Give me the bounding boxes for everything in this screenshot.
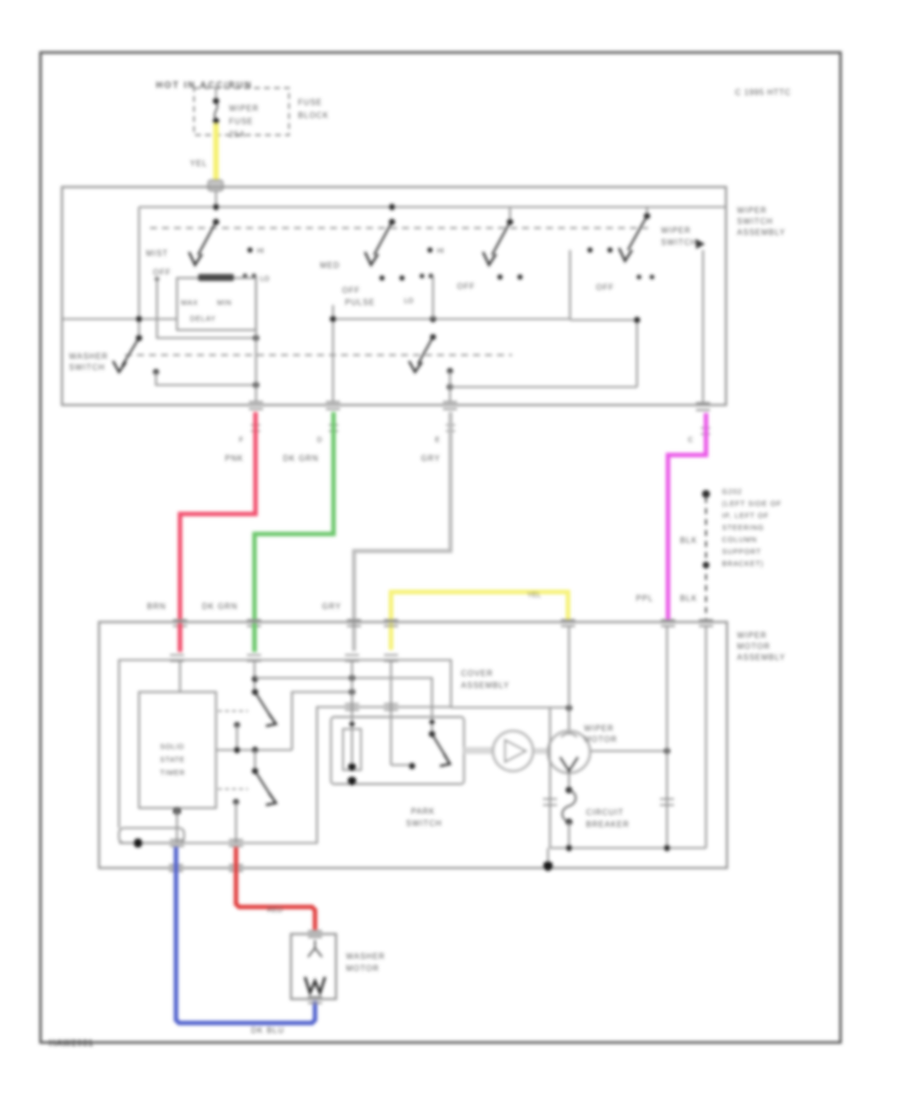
wire yel leg to park contact xyxy=(391,764,412,766)
contact dots sec2 xyxy=(379,275,384,280)
wire off4 rail to gry xyxy=(450,386,637,388)
svg-text:FUSE: FUSE xyxy=(229,117,253,126)
wiper motor assembly box xyxy=(99,622,727,868)
case ground node xyxy=(543,861,553,871)
cover assembly compartment outline xyxy=(119,660,451,843)
svg-text:ASSEMBLY: ASSEMBLY xyxy=(737,653,786,662)
washer switch arm xyxy=(122,338,139,366)
mechanical link bar 2 xyxy=(534,748,549,754)
mechanical link dashed line xyxy=(150,227,648,229)
washer motor box xyxy=(291,934,336,999)
pin yel inner xyxy=(384,655,398,661)
node bus b xyxy=(252,747,258,753)
wire ppl rail down xyxy=(666,626,668,848)
cam pointer xyxy=(505,740,526,762)
wire ppl output rail xyxy=(702,250,704,402)
ground splice node xyxy=(702,490,710,498)
contact dots sec4 xyxy=(587,247,592,252)
node on ground wire xyxy=(703,562,710,569)
svg-text:OFF: OFF xyxy=(153,268,171,277)
node pnk rail mid xyxy=(253,335,259,341)
svg-text:OFF: OFF xyxy=(596,283,614,292)
wire gry output rail xyxy=(449,371,451,402)
wire pnk pin to timer xyxy=(179,661,181,692)
svg-text:SOLID: SOLID xyxy=(160,744,185,751)
wire OFF contact to bottom rail sec1 xyxy=(155,277,159,281)
wire lo contact down sec2 xyxy=(432,276,434,319)
inner box left edge xyxy=(138,207,140,338)
pin brn entry xyxy=(173,620,187,626)
svg-text:GRY: GRY xyxy=(421,454,440,463)
svg-text:MIN: MIN xyxy=(217,300,232,307)
svg-text:RED: RED xyxy=(267,905,283,914)
svg-text:DK BLU: DK BLU xyxy=(251,1026,285,1035)
pin washer motor bottom xyxy=(308,997,322,1003)
svg-text:GRY: GRY xyxy=(322,602,341,611)
switch arm pivot sec1 xyxy=(213,219,219,225)
switch arm pivot sec3 xyxy=(507,219,513,225)
timer control dash 2 xyxy=(218,788,248,790)
wire breaker to bottom xyxy=(568,822,570,848)
node park common xyxy=(348,763,356,771)
wire sec4 bottom rail xyxy=(570,320,637,387)
park contact node xyxy=(409,763,415,769)
cam wheel xyxy=(493,731,533,771)
relay arm rail grn xyxy=(254,661,256,692)
node park lower xyxy=(348,777,357,786)
svg-text:SUPPORT: SUPPORT xyxy=(722,549,761,556)
wiper motor symbol xyxy=(548,731,590,773)
pin red crossing box bottom xyxy=(229,865,243,871)
wire motor to ppl rail xyxy=(590,750,667,752)
timer output node xyxy=(173,807,181,815)
feed stub sec4 xyxy=(646,207,648,217)
svg-text:WASHER: WASHER xyxy=(346,952,385,961)
pin gry entry xyxy=(347,620,361,626)
svg-text:HAW2031: HAW2031 xyxy=(49,1038,94,1048)
wire RED xyxy=(236,847,315,930)
svg-text:E: E xyxy=(435,437,440,444)
pin blue crossing box bottom xyxy=(169,865,183,871)
svg-text:LO: LO xyxy=(404,298,414,305)
switch arm sec4 xyxy=(628,216,647,250)
wire into switch assembly xyxy=(215,191,217,208)
node feed junction sec1 xyxy=(213,204,219,210)
wire relay to park pivot xyxy=(255,678,432,734)
svg-text:YEL: YEL xyxy=(527,590,541,599)
wiper switch connector pointer xyxy=(696,239,705,249)
wire yel pin down to motor xyxy=(568,626,570,732)
pin on ppl rail xyxy=(660,799,674,805)
pin gry inner xyxy=(345,655,359,661)
wire motor down xyxy=(568,773,570,790)
svg-text:DK GRN: DK GRN xyxy=(202,602,238,611)
node feed sec4 xyxy=(644,213,650,219)
pin pnk exit xyxy=(249,402,263,409)
svg-text:BRACKET): BRACKET) xyxy=(722,561,764,568)
svg-text:BREAKER: BREAKER xyxy=(586,820,630,829)
svg-text:DK GRN: DK GRN xyxy=(283,454,319,463)
delay wiper tick marks xyxy=(198,274,234,281)
svg-text:MOTOR: MOTOR xyxy=(584,735,617,744)
node relay feed xyxy=(252,676,258,682)
pin red exit xyxy=(229,840,243,846)
mechanical link bar xyxy=(464,747,493,754)
wire branch riser xyxy=(549,708,551,848)
svg-text:SWITCH: SWITCH xyxy=(406,819,442,828)
pin on branch riser xyxy=(543,799,557,805)
splice S211 at switch box edge xyxy=(208,180,223,191)
wire cover to motor xyxy=(451,707,569,709)
wire DK BLU xyxy=(176,847,315,1023)
pin grn inner xyxy=(247,655,261,661)
svg-text:SWITCH: SWITCH xyxy=(69,363,105,372)
solid state timer box xyxy=(139,692,216,808)
wire pnk output rail xyxy=(255,276,257,402)
ground loop node xyxy=(133,838,142,847)
svg-text:YEL: YEL xyxy=(190,159,207,168)
mark grn xyxy=(329,425,338,431)
svg-text:C: C xyxy=(688,437,693,444)
node bus a xyxy=(234,747,240,753)
svg-text:BLOCK: BLOCK xyxy=(298,111,329,120)
wire pnk stub inside box xyxy=(178,624,183,652)
svg-text:BLK: BLK xyxy=(680,536,697,545)
svg-text:COVER: COVER xyxy=(461,669,493,678)
svg-text:MOTOR: MOTOR xyxy=(346,964,379,973)
wiper fuse element xyxy=(215,88,217,102)
pin dk grn entry xyxy=(247,620,261,626)
delay resistor box xyxy=(177,278,256,330)
node ground bus b xyxy=(664,845,670,851)
wire left rail to delay box xyxy=(63,318,177,320)
page border frame xyxy=(41,53,841,1043)
wire yel leg inside xyxy=(390,661,392,765)
timer bus xyxy=(216,749,292,751)
pin yel crossing compartment xyxy=(384,704,398,710)
contact LO sec1 xyxy=(243,274,248,279)
washer motor terminal fork xyxy=(308,940,322,957)
svg-text:STEERING: STEERING xyxy=(722,525,764,532)
svg-text:SWITCH: SWITCH xyxy=(737,217,773,226)
svg-text:F: F xyxy=(239,437,243,444)
contact dots sec3 xyxy=(497,274,502,279)
pin yel entry xyxy=(561,620,575,626)
park switch box xyxy=(331,717,464,784)
pin blk entry xyxy=(699,620,713,626)
svg-text:SWITCH: SWITCH xyxy=(661,238,697,247)
washer mechanical dashed line xyxy=(125,354,512,356)
wire blk rail down xyxy=(705,626,707,848)
fuse block dashed box xyxy=(194,88,289,135)
relay arm 1 xyxy=(255,692,271,717)
node gry top xyxy=(447,368,453,374)
wire bus to pivot2 xyxy=(254,750,256,771)
pins on compartment top edge xyxy=(170,655,398,661)
wire PPL xyxy=(668,413,706,620)
switch arm pivot sec2 xyxy=(389,219,395,225)
svg-text:PARK: PARK xyxy=(411,807,435,816)
svg-text:WIPER: WIPER xyxy=(737,206,767,215)
svg-text:MIST: MIST xyxy=(146,249,168,258)
park arm pivot xyxy=(429,731,435,737)
feed stub sec3 xyxy=(509,207,511,222)
relay contact 2 xyxy=(233,799,239,805)
svg-text:IP, LEFT OF: IP, LEFT OF xyxy=(722,513,769,520)
wire YEL to park switch xyxy=(391,592,568,650)
park switch inner contact frame xyxy=(343,729,361,770)
node park top xyxy=(349,721,354,726)
pin blue exit xyxy=(170,840,184,846)
svg-text:OFF: OFF xyxy=(457,282,475,291)
svg-text:WIPER: WIPER xyxy=(737,631,767,640)
wire contact1 to bus xyxy=(236,725,238,750)
wire GRY xyxy=(354,412,451,651)
contact HI sec1 xyxy=(247,247,252,252)
mark pnk xyxy=(251,425,260,431)
sec3 box right edge xyxy=(569,250,571,319)
node relay pivot 1 xyxy=(252,689,258,695)
contact HI sec2 xyxy=(427,247,432,252)
pin gry exit xyxy=(443,402,457,409)
svg-text:BRN: BRN xyxy=(147,602,166,611)
node gry junction xyxy=(447,384,453,390)
svg-text:LO: LO xyxy=(260,276,270,283)
ground wire BLK dashed xyxy=(705,497,707,620)
svg-text:C 1995 HTTC: C 1995 HTTC xyxy=(735,88,791,97)
svg-text:ASSEMBLY: ASSEMBLY xyxy=(737,228,786,237)
svg-text:WIPER: WIPER xyxy=(661,226,691,235)
svg-text:BLK: BLK xyxy=(680,594,697,603)
node gry top cross xyxy=(349,675,355,681)
svg-text:PULSE: PULSE xyxy=(345,298,375,307)
svg-text:HOT IN ACC/RUN: HOT IN ACC/RUN xyxy=(156,80,253,90)
connector pins on motor box top edge xyxy=(173,620,713,626)
svg-text:G202: G202 xyxy=(722,489,742,496)
inline connector marks on wires xyxy=(251,425,710,434)
svg-text:ASSEMBLY: ASSEMBLY xyxy=(461,681,510,690)
pin grn exit xyxy=(326,402,340,409)
svg-text:HI: HI xyxy=(437,248,444,255)
wire ground bus to case xyxy=(547,848,549,864)
node relay pivot 2 xyxy=(252,768,258,774)
pin gry crossing compartment xyxy=(345,704,359,710)
svg-text:FUSE: FUSE xyxy=(298,98,322,107)
pulse section bottom rail xyxy=(333,318,570,320)
node ground bus a xyxy=(566,845,572,851)
svg-text:OFF: OFF xyxy=(342,286,360,295)
svg-text:CIRCUIT: CIRCUIT xyxy=(586,808,624,817)
svg-text:WIPER: WIPER xyxy=(229,104,259,113)
node pnk rail low xyxy=(253,382,259,388)
relay arm 2 xyxy=(255,771,271,796)
svg-text:TIMER: TIMER xyxy=(160,770,185,777)
washer arm 2 xyxy=(418,337,433,364)
relay contact 1 xyxy=(234,722,240,728)
timer control dash 1 xyxy=(218,710,248,712)
wire grn output rail xyxy=(332,305,334,402)
node feed junction sec2 xyxy=(389,204,395,210)
svg-text:COLUMN: COLUMN xyxy=(722,537,757,544)
svg-text:25A: 25A xyxy=(229,130,246,139)
node motor feed top xyxy=(566,705,572,711)
washer contact node xyxy=(153,369,159,375)
park switch arm xyxy=(432,734,446,757)
switch arm sec3 xyxy=(492,222,510,255)
ground loop box bottom left xyxy=(119,828,184,843)
svg-text:DELAY: DELAY xyxy=(190,316,216,323)
svg-text:D: D xyxy=(317,437,322,444)
svg-text:HI: HI xyxy=(257,248,264,255)
svg-text:(LEFT SIDE OF: (LEFT SIDE OF xyxy=(722,501,782,508)
wire grn stub inside box xyxy=(252,624,257,652)
node lo rail xyxy=(430,316,436,322)
pin washer motor top xyxy=(308,931,322,937)
svg-text:WIPER: WIPER xyxy=(584,724,614,733)
svg-text:PPL: PPL xyxy=(636,594,653,603)
connector pins at switch box exits xyxy=(249,402,710,410)
wire DK GRN xyxy=(255,412,334,651)
feed bus line xyxy=(139,206,726,208)
washer motor winding symbol xyxy=(305,977,325,993)
wiper switch assembly box xyxy=(62,187,726,405)
svg-text:PNK: PNK xyxy=(225,454,244,463)
node gry mid xyxy=(349,689,355,695)
node grn rail xyxy=(330,316,336,322)
node washer arm top xyxy=(136,335,142,341)
mark ppl xyxy=(701,428,710,434)
wire washer contact to pink rail xyxy=(156,372,256,385)
pin ppl entry xyxy=(661,620,675,626)
wire YEL from fuse xyxy=(213,124,219,183)
wire bus riser xyxy=(292,692,352,750)
switch arm sec1 (MIST) xyxy=(198,222,216,255)
svg-text:MED: MED xyxy=(320,261,340,270)
wire timer to blue exit xyxy=(176,808,178,843)
svg-text:MAX: MAX xyxy=(181,300,198,307)
pin brn inner xyxy=(170,655,184,661)
mark gry xyxy=(446,425,455,431)
wire contact2 to red exit xyxy=(235,802,237,843)
svg-text:WASHER: WASHER xyxy=(69,352,108,361)
pin ppl exit xyxy=(696,403,710,410)
node sec4 rail xyxy=(634,317,640,323)
node ppl rail motor xyxy=(664,748,670,754)
circuit breaker xyxy=(566,787,573,794)
node park pivot upper xyxy=(429,719,434,724)
switch arm sec2 (MED) xyxy=(374,222,392,255)
node on left rail xyxy=(136,316,142,322)
svg-text:MOTOR: MOTOR xyxy=(737,642,770,651)
wire PNK xyxy=(180,412,256,651)
pin yel crossing xyxy=(384,620,398,626)
washer arm 2 pivot xyxy=(430,334,436,340)
ground bus bottom xyxy=(550,847,706,849)
wire gry rail down xyxy=(351,661,353,768)
svg-text:STATE: STATE xyxy=(160,757,185,764)
